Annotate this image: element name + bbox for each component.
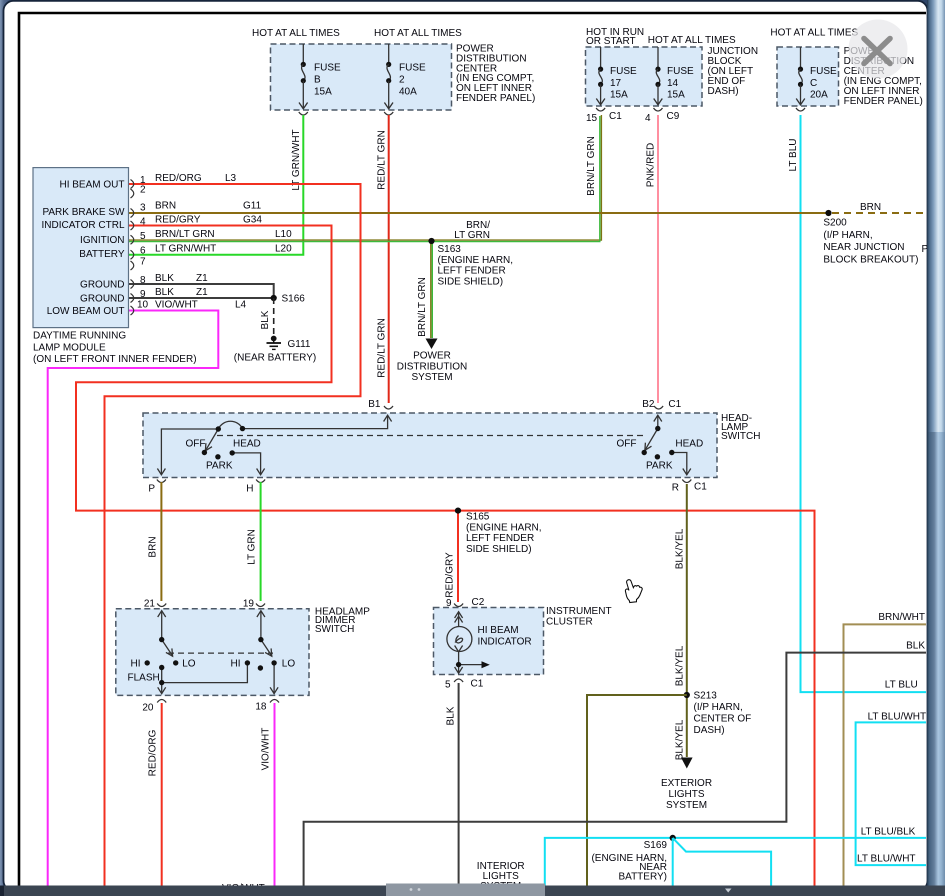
svg-text:HI BEAM: HI BEAM	[478, 625, 519, 636]
svg-text:BRN/LT GRN: BRN/LT GRN	[417, 277, 428, 337]
svg-text:DASH): DASH)	[708, 86, 739, 97]
svg-text:BLK: BLK	[906, 641, 925, 652]
svg-text:BLK: BLK	[155, 273, 174, 284]
connector cup R / C1	[682, 480, 691, 483]
svg-text:(ENGINE HARN,: (ENGINE HARN,	[438, 255, 514, 266]
wire BLK/YEL from R to S213 and arrow	[686, 484, 688, 757]
junction block box	[586, 47, 703, 106]
svg-text:SWITCH: SWITCH	[315, 624, 354, 635]
svg-text:FLASH: FLASH	[128, 673, 160, 684]
svg-text:HOT AT ALL TIMES: HOT AT ALL TIMES	[374, 28, 462, 39]
svg-text:FUSE: FUSE	[399, 63, 426, 74]
svg-text:21: 21	[144, 599, 156, 610]
wire BRN/WHT from right edge down to bottom	[844, 624, 927, 886]
svg-text:20A: 20A	[810, 90, 828, 101]
label POWER DISTRIBUTION SYSTEM	[397, 351, 468, 384]
svg-text:OFF: OFF	[186, 439, 206, 450]
dimmer left mechanism	[158, 611, 248, 694]
svg-text:H: H	[246, 484, 253, 495]
svg-text:10: 10	[137, 300, 149, 311]
svg-text:C1: C1	[668, 399, 681, 410]
svg-text:LT BLU: LT BLU	[788, 139, 799, 172]
label: power distribution center (right)	[844, 46, 923, 107]
svg-text:C1: C1	[609, 111, 622, 122]
module pin connector arcs 1-10	[131, 180, 134, 316]
wire LT GRN/WHT from fuse B to pin 6	[129, 115, 304, 255]
headlamp switch box	[143, 413, 717, 478]
svg-text:RED/LT GRN: RED/LT GRN	[377, 318, 388, 378]
svg-text:LEFT FENDER: LEFT FENDER	[438, 266, 506, 277]
wire RED/GRY drop from S165 to instrument cluster	[457, 511, 459, 602]
svg-text:Z1: Z1	[196, 273, 208, 284]
svg-text:HI: HI	[231, 658, 241, 669]
svg-text:C: C	[810, 78, 817, 89]
svg-text:VIO/WHT: VIO/WHT	[261, 728, 272, 771]
ground G111	[267, 336, 282, 350]
label S165 (ENGINE HARN, LEFT FENDER SIDE SHIELD)	[466, 512, 542, 555]
svg-text:(ENGINE HARN,: (ENGINE HARN,	[466, 522, 542, 533]
connector cup P	[157, 480, 166, 483]
connector cup fuse B	[299, 112, 308, 115]
svg-text:BRN/LT GRN: BRN/LT GRN	[155, 229, 215, 240]
bottom scrollbar thumb	[386, 884, 545, 896]
svg-text:BRN/LT GRN: BRN/LT GRN	[586, 136, 597, 196]
svg-text:19: 19	[243, 599, 255, 610]
wire BRN/LT GRN from fuse 17 to S163 and pin 5 (two-tone)	[129, 115, 602, 240]
wire BLK from right edge around to interior lights	[304, 653, 926, 886]
svg-text:BRN: BRN	[155, 200, 176, 211]
wire LT BLU/BLK diagonal branch from S169	[673, 838, 771, 886]
svg-text:BLOCK BREAKOUT): BLOCK BREAKOUT)	[823, 255, 918, 266]
label: power distribution center (left)	[456, 44, 535, 105]
power distribution center box (left)	[271, 44, 452, 110]
instrument cluster box	[434, 608, 544, 675]
svg-text:LIGHTS: LIGHTS	[668, 789, 704, 800]
svg-text:(I/P HARN,: (I/P HARN,	[694, 702, 743, 713]
svg-text:S165: S165	[466, 512, 490, 523]
bottom bar left corner	[0, 886, 4, 896]
label S213 (I/P HARN, CENTER OF DASH)	[694, 691, 752, 737]
svg-text:FUSE: FUSE	[810, 66, 837, 77]
svg-text:BLK: BLK	[260, 310, 271, 329]
connector cup 19	[256, 604, 265, 607]
svg-text:RED/GRY: RED/GRY	[445, 552, 456, 598]
svg-text:LAMP MODULE: LAMP MODULE	[33, 342, 106, 353]
thumb grip dots	[410, 888, 413, 891]
svg-text:L3: L3	[225, 173, 237, 184]
bar arrow mark	[725, 889, 732, 893]
svg-text:PARK: PARK	[206, 461, 233, 472]
svg-text:18: 18	[255, 702, 267, 713]
label daytime running lamp module	[33, 331, 197, 366]
svg-text:15: 15	[586, 113, 598, 124]
wire RED/GRY pin 4 route to S165 line and down right side	[76, 226, 815, 887]
splice S169	[670, 835, 676, 841]
arrow to exterior lights system	[681, 758, 693, 769]
svg-text:G34: G34	[243, 215, 262, 226]
label S169 (ENGINE HARN, NEAR BATTERY)	[591, 840, 667, 883]
power distribution center box (right)	[777, 47, 839, 106]
svg-text:4: 4	[140, 217, 146, 228]
svg-text:G111: G111	[288, 339, 311, 350]
svg-text:RED/GRY: RED/GRY	[155, 215, 201, 226]
wire BRN pin 3 to S200 and right edge (dashed after splice)	[129, 212, 829, 214]
svg-text:BLK: BLK	[446, 706, 457, 725]
svg-text:G11: G11	[243, 200, 262, 211]
svg-text:3: 3	[140, 202, 146, 213]
svg-text:C9: C9	[667, 111, 680, 122]
svg-text:LT BLU: LT BLU	[885, 680, 918, 691]
svg-text:INSTRUMENT: INSTRUMENT	[546, 606, 612, 617]
hi beam indicator bulb	[447, 612, 482, 674]
svg-text:40A: 40A	[399, 87, 417, 98]
headlamp dimmer switch box	[116, 609, 309, 696]
connector cup fuse C	[796, 108, 805, 111]
mouse cursor	[624, 579, 643, 604]
right scrollbar strip	[927, 0, 945, 896]
wire LT BLU from fuse C down and to right edge	[801, 115, 927, 692]
svg-text:BATTERY: BATTERY	[79, 249, 125, 260]
svg-text:DASH): DASH)	[694, 725, 725, 736]
wire PNK/RED from fuse 14 to B2	[657, 115, 659, 403]
connector cup fuse 17 with pin labels	[596, 108, 605, 111]
label INTERIOR LIGHTS SYSTEM	[477, 861, 525, 892]
close button X	[864, 39, 890, 64]
daytime running lamp module box	[33, 168, 129, 328]
wire VIO/WHT pin 10 route	[48, 311, 219, 887]
fuse 17 15A	[596, 47, 637, 105]
svg-text:L4: L4	[235, 300, 247, 311]
svg-text:2: 2	[399, 75, 405, 86]
svg-text:CENTER OF: CENTER OF	[694, 714, 752, 725]
svg-text:S169: S169	[644, 840, 668, 851]
svg-text:POWER: POWER	[413, 351, 451, 362]
svg-text:BRN: BRN	[860, 202, 881, 213]
svg-text:HI BEAM OUT: HI BEAM OUT	[59, 179, 124, 190]
svg-text:BLK/YEL: BLK/YEL	[675, 719, 686, 760]
svg-text:IGNITION: IGNITION	[80, 235, 124, 246]
arrow to power distribution system	[426, 339, 438, 350]
svg-text:(I/P HARN,: (I/P HARN,	[823, 230, 872, 241]
fuse C 20A	[796, 47, 837, 105]
dimmer right mechanism	[257, 611, 278, 694]
svg-text:LT GRN: LT GRN	[454, 230, 490, 241]
svg-text:BLK/YEL: BLK/YEL	[675, 528, 686, 569]
svg-text:(NEAR BATTERY): (NEAR BATTERY)	[234, 353, 316, 364]
svg-text:OFF: OFF	[617, 439, 637, 450]
svg-text:C2: C2	[472, 597, 485, 608]
svg-text:15A: 15A	[314, 87, 332, 98]
svg-text:LT BLU/WHT: LT BLU/WHT	[868, 712, 927, 723]
svg-text:OR START: OR START	[586, 36, 636, 47]
splice S213	[684, 692, 690, 698]
svg-text:SIDE SHIELD): SIDE SHIELD)	[466, 544, 532, 555]
svg-text:FUSE: FUSE	[314, 63, 341, 74]
svg-text:GROUND: GROUND	[80, 279, 124, 290]
svg-text:LEFT FENDER: LEFT FENDER	[466, 533, 534, 544]
svg-text:S166: S166	[282, 294, 306, 305]
headlamp switch right mechanism	[645, 415, 691, 475]
splice S165	[455, 508, 461, 514]
label HEADLAMP DIMMER SWITCH	[315, 607, 370, 635]
svg-text:9: 9	[446, 598, 452, 609]
fuse 14 15A	[654, 47, 694, 105]
connector cup H	[256, 480, 265, 483]
svg-text:HEAD: HEAD	[675, 439, 703, 450]
svg-text:INDICATOR CTRL: INDICATOR CTRL	[42, 220, 125, 231]
label: junction block	[708, 46, 759, 97]
svg-text:LOW BEAM OUT: LOW BEAM OUT	[47, 306, 125, 317]
svg-text:PNK/RED: PNK/RED	[646, 143, 657, 187]
svg-text:9: 9	[140, 289, 146, 300]
svg-text:5: 5	[140, 231, 146, 242]
close button circle	[849, 20, 908, 79]
label HEAD-LAMP SWITCH	[721, 413, 760, 442]
fuse B 15A	[299, 44, 341, 109]
wire LT BLU/BLK drop from S169	[672, 838, 674, 886]
svg-text:S213: S213	[694, 691, 718, 702]
svg-text:BLK/YEL: BLK/YEL	[675, 645, 686, 686]
svg-text:7: 7	[140, 257, 146, 268]
svg-text:LT GRN/WHT: LT GRN/WHT	[155, 244, 216, 255]
svg-text:BRN: BRN	[148, 536, 159, 557]
svg-text:L20: L20	[275, 244, 292, 255]
svg-text:R: R	[672, 483, 679, 494]
svg-text:15A: 15A	[667, 90, 685, 101]
wire RED/LT GRN from fuse 2 to B1	[388, 115, 390, 403]
splice S163	[428, 238, 434, 244]
wire LT BLU/BLK from right edge to S169 region	[545, 838, 926, 886]
svg-text:HOT AT ALL TIMES: HOT AT ALL TIMES	[770, 28, 858, 39]
svg-text:FENDER PANEL): FENDER PANEL)	[456, 93, 535, 104]
svg-text:B1: B1	[368, 399, 381, 410]
svg-text:FUSE: FUSE	[667, 66, 694, 77]
right scrollbar thumb	[927, 0, 945, 432]
svg-text:C1: C1	[471, 679, 484, 690]
svg-text:DISTRIBUTION: DISTRIBUTION	[397, 361, 468, 372]
svg-text:LT GRN: LT GRN	[247, 529, 258, 565]
svg-text:HI: HI	[131, 658, 141, 669]
svg-text:HOT AT ALL TIMES: HOT AT ALL TIMES	[252, 28, 340, 39]
svg-text:INDICATOR: INDICATOR	[478, 636, 532, 647]
svg-text:VIO/WHT: VIO/WHT	[155, 300, 198, 311]
svg-text:BLK: BLK	[155, 287, 174, 298]
svg-text:17: 17	[610, 78, 622, 89]
svg-text:SYSTEM: SYSTEM	[411, 372, 452, 383]
wire BLK from cluster 5 to bottom	[458, 683, 460, 886]
svg-text:HEAD: HEAD	[233, 439, 261, 450]
svg-text:P: P	[148, 484, 155, 495]
svg-text:SYSTEM: SYSTEM	[666, 800, 707, 811]
svg-text:(ON LEFT FRONT INNER FENDER): (ON LEFT FRONT INNER FENDER)	[33, 354, 197, 365]
connector cup fuse 14 with pin labels	[654, 108, 663, 111]
svg-text:LO: LO	[282, 658, 296, 669]
wire BLK pin 9	[129, 297, 274, 299]
bottom bar	[0, 886, 945, 896]
svg-text:RED/ORG: RED/ORG	[148, 729, 159, 776]
svg-text:HOT AT ALL TIMES: HOT AT ALL TIMES	[648, 35, 736, 46]
wire BRN/LT GRN drop from S163 to power distribution system (two-tone)	[430, 241, 432, 338]
headlamp switch left mechanism	[157, 415, 391, 475]
svg-text:LT BLU/WHT: LT BLU/WHT	[857, 854, 916, 865]
svg-text:BATTERY): BATTERY)	[618, 872, 667, 883]
svg-text:EXTERIOR: EXTERIOR	[661, 778, 712, 789]
svg-text:S200: S200	[823, 218, 847, 229]
wire name labels on module rows	[155, 173, 292, 311]
label S200 (I/P HARN, NEAR JUNCTION BLOCK BREAKOUT)	[823, 218, 918, 266]
svg-text:LO: LO	[182, 658, 196, 669]
connector cup 18	[270, 700, 279, 703]
svg-text:SIDE SHIELD): SIDE SHIELD)	[438, 276, 504, 287]
connector cup 9 / C2	[454, 604, 463, 607]
svg-text:DAYTIME RUNNING: DAYTIME RUNNING	[33, 331, 126, 342]
svg-text:L10: L10	[275, 229, 292, 240]
connector cup fuse 2	[384, 112, 393, 115]
svg-text:20: 20	[142, 703, 154, 714]
fuse 2 40A	[384, 44, 426, 109]
svg-text:Z1: Z1	[196, 287, 208, 298]
svg-text:6: 6	[140, 246, 146, 257]
svg-text:RED/LT GRN: RED/LT GRN	[377, 130, 388, 190]
connector cup 20	[157, 700, 166, 703]
connector cup 5 / C1	[454, 679, 463, 682]
wire BLK pin 8	[129, 284, 274, 298]
svg-text:FENDER PANEL): FENDER PANEL)	[844, 96, 923, 107]
svg-text:RED/ORG: RED/ORG	[155, 173, 202, 184]
module pin labels	[42, 179, 126, 317]
wire RED/ORG pin 1 route	[105, 184, 361, 886]
svg-text:B2: B2	[642, 399, 655, 410]
svg-text:PARK BRAKE SW: PARK BRAKE SW	[42, 207, 125, 218]
svg-text:BRN/WHT: BRN/WHT	[878, 612, 925, 623]
svg-text:2: 2	[140, 185, 146, 196]
svg-text:S163: S163	[438, 244, 462, 255]
wire RED/ORG from dimmer 20 to bottom	[161, 703, 163, 886]
wire VIO/WHT from dimmer 18 to bottom	[274, 703, 276, 886]
svg-text:CLUSTER: CLUSTER	[546, 617, 593, 628]
svg-text:FUSE: FUSE	[610, 66, 637, 77]
wire BRN from P to dimmer 21	[160, 482, 162, 601]
svg-text:15A: 15A	[610, 90, 628, 101]
splice S166	[271, 295, 277, 301]
svg-text:4: 4	[645, 113, 651, 124]
headlamp switch inner dashed link	[217, 435, 645, 437]
svg-text:8: 8	[140, 275, 146, 286]
svg-text:14: 14	[667, 78, 679, 89]
svg-text:LT BLU/BLK: LT BLU/BLK	[861, 827, 916, 838]
connector cup 21	[157, 604, 166, 607]
svg-text:GROUND: GROUND	[80, 293, 124, 304]
svg-text:PARK: PARK	[646, 461, 673, 472]
splice S200	[825, 210, 831, 216]
svg-text:C1: C1	[694, 482, 707, 493]
svg-text:LT GRN/WHT: LT GRN/WHT	[291, 129, 302, 190]
svg-text:5: 5	[445, 680, 451, 691]
svg-text:SWITCH: SWITCH	[721, 431, 760, 442]
wire LT GRN from H to dimmer 19	[260, 482, 262, 601]
module pin numbers	[137, 175, 149, 311]
label S163 (ENGINE HARN, LEFT FENDER SIDE SHIELD)	[438, 244, 514, 287]
svg-text:B: B	[314, 75, 321, 86]
wire BLK/YEL branch from S213 down left	[587, 695, 687, 886]
label EXTERIOR LIGHTS SYSTEM	[661, 778, 712, 811]
svg-text:NEAR JUNCTION: NEAR JUNCTION	[823, 242, 904, 253]
wire BLK dashed to ground G111	[273, 298, 275, 335]
wire LT BLU/WHT loop at right edge	[856, 722, 926, 865]
